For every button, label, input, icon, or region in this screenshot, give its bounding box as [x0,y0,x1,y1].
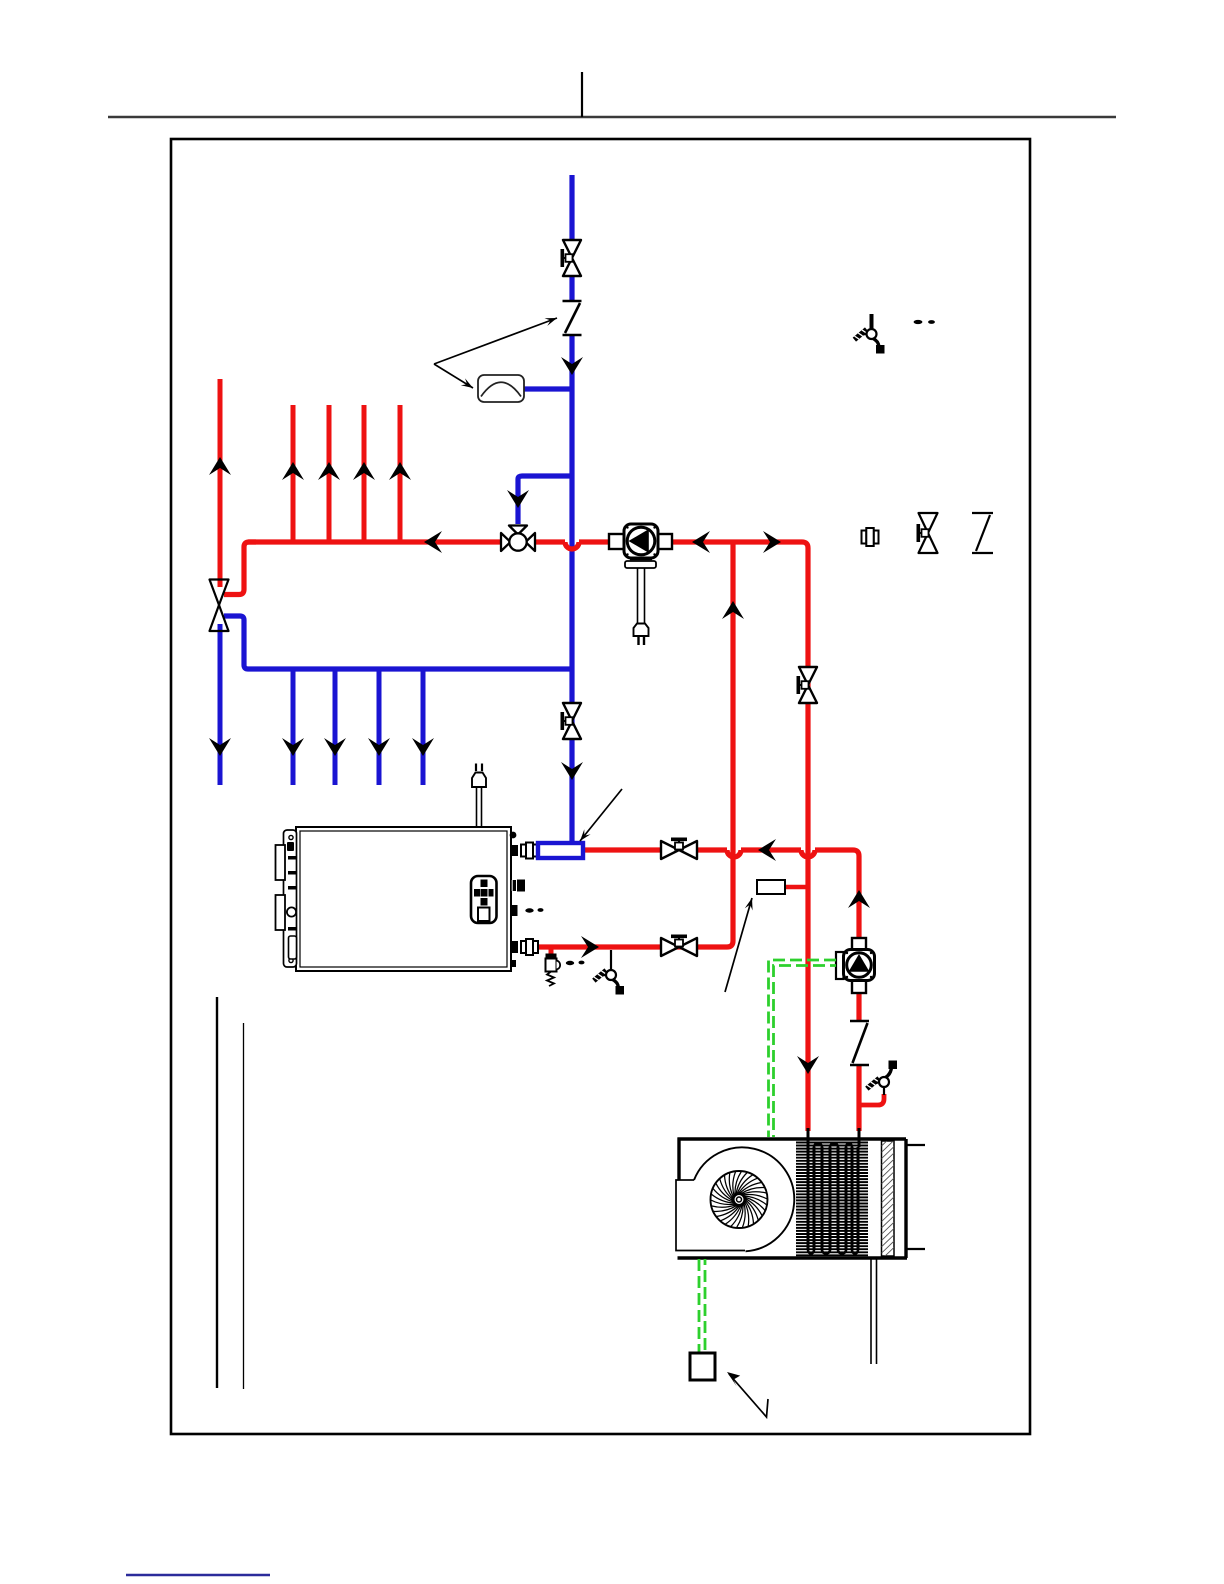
drain cock D2 under boiler flow pipe [610,950,612,970]
blower volute outline [676,1180,745,1251]
air filter strip [882,1141,895,1256]
annotation arrow to flexible connection [434,318,557,364]
annotation arrow to sensor pocket [725,898,752,992]
boiler return connection nipple [511,845,518,856]
wire: blue return riser 3 [377,669,382,785]
wire: blue branch to 3-way valve [518,476,572,524]
safety valve SV [546,954,557,959]
flow arrow down, 3-way valve branch [507,490,529,508]
boiler left mounting bracket [284,830,297,967]
boiler flow connection nipple [511,941,518,953]
pump P2 bottom port [852,978,866,993]
wire: red pipe flex to fan-coil [856,1065,861,1131]
thermostat cable below fan coil [699,1259,705,1353]
legend: drain cock D1 [870,314,874,329]
flow arrow left, after pump1 [692,531,710,553]
wire: blue left return drop (x=220) [218,624,223,785]
fan coil casing [678,1138,908,1259]
flow arrow down, blue return riser 1 [282,738,304,756]
tiny label dots near gas port [525,908,533,912]
flow arrow up, red riser 3 [353,462,375,480]
wire: red supply riser 4 [398,405,403,542]
pump P2 [844,950,875,981]
flow arrow down, blue return riser 2 [324,738,346,756]
wire: blue return riser 4 [421,669,426,785]
annotation arrow to room thermostat [729,1374,768,1417]
flow arrow down, blue left drop [209,738,231,756]
fan wheel [711,1171,768,1228]
wire: boiler flow pipe riser (x=733) [537,542,733,947]
wire: red supply riser 3 [362,405,367,542]
boiler top-right stud [510,832,517,839]
wire: safety valve tee stub [549,947,554,955]
thermostat cable to pump2 (double dashed green) [769,960,837,1137]
wire: red manifold left elbow to isolating valve [224,542,256,595]
pump P1 left port [609,534,624,549]
wire: blue return riser 1 [291,669,296,785]
figure border frame [171,139,1030,1434]
boiler left connection block upper [276,845,286,880]
coil inlet stub left [807,1128,810,1147]
boiler return pipe stub (blue outline) [538,843,583,858]
temperature sensor pocket S [757,880,785,894]
wire: red supply riser 2 [327,405,332,542]
fan coil duct flange top [906,1144,925,1146]
flow arrow down, fan-coil supply [797,1056,819,1074]
pump P2 top port [852,938,866,952]
gate valve V3 on fan-coil return [661,841,697,859]
flow arrow down, blue return riser 4 [412,738,434,756]
boiler left connection block lower [276,895,286,930]
flow arrow up, to fan-coil return [848,890,870,908]
flow arrow up, red riser 2 [318,462,340,480]
gate valve V5 on blue main above boiler [563,703,581,739]
pump P1 base [630,559,652,561]
flow arrow left, red manifold [424,531,442,553]
pump P1 power cable [637,568,639,623]
heat exchanger fins [796,1143,868,1256]
gate valve V6 on fan-coil supply riser [799,667,817,703]
flexible connection Z1 on cold water main [563,301,582,335]
boiler body [296,827,511,971]
boiler plug [472,773,486,788]
wire: drain cock branch at fan-coil [859,1094,884,1105]
wire: sensor pocket stub [785,885,806,890]
flow arrow left, fan-coil return [758,839,776,861]
legend: union fitting [862,528,879,546]
pump P1 plug [634,624,649,637]
flow arrow right, boiler flow [581,936,599,958]
header rule [108,116,1116,118]
header center tick [581,72,583,117]
isolating valve V2 left manifold [210,580,229,632]
wire: fan-coil return pipe (y=850) [583,850,859,938]
wire: red supply riser 1 [291,405,296,542]
wire: blue return manifold (y=669) [224,616,572,669]
wire: red pipe pump2 to flex [856,992,861,1021]
legend: gate valve [919,513,938,553]
boiler small port [511,905,518,916]
flow arrow up, red riser 4 [389,462,411,480]
flexible connection Z2 under pump2 [850,1021,869,1065]
gate valve V4 on boiler flow [661,938,697,956]
flow arrow right, before corner [763,531,781,553]
wire: red riser tall left (x=220) [218,379,223,587]
annotation arrow to water meter [434,364,473,388]
gate valve V1 on cold water main [563,240,581,276]
leader rule thin (left) [243,1023,245,1389]
wire: cold water inlet main (blue vertical x=572) [569,175,574,843]
union U2 on boiler flow [521,939,538,955]
union U1 on boiler return [521,843,538,859]
boiler gas connection [511,880,516,891]
flow arrow down, blue return riser 3 [368,738,390,756]
footer link underline [126,1574,270,1576]
pump P2 flange [836,952,844,979]
condensate drain pipe [870,1259,872,1364]
pump P1 [624,524,658,558]
leader rule thick (left) [216,997,218,1388]
wire: red supply manifold (y=542) [248,542,808,1131]
boiler power cable [476,787,478,827]
three-way mixing valve MV [501,526,535,552]
flow arrow up, red riser 1 [282,462,304,480]
coil inlet stub right [858,1128,861,1147]
pump P1 right port [658,534,672,549]
annotation arrow to boiler return elbow [580,789,622,841]
room thermostat T [690,1353,715,1380]
flow arrow up, tall red riser [209,457,231,475]
boiler left fittings [287,842,294,851]
drain cock D3 at fan-coil supply [883,1087,885,1095]
tiny label dots near safety valve [566,961,574,965]
wire: blue branch to water meter [524,386,572,391]
heat exchanger serpentine tubes [808,1147,858,1250]
legend: flexible connection [972,513,993,553]
boiler control panel [471,876,497,923]
boiler bottom-right stud [511,960,516,967]
flow arrow up, boiler flow riser [722,601,744,619]
wire: blue return riser 2 [333,669,338,785]
fan coil duct flange bottom [906,1248,925,1250]
flow arrow down, cold main above meter [561,357,583,375]
water meter M [478,375,524,402]
flow arrow down, blue main to boiler [561,762,583,780]
legend label dots [914,320,923,324]
